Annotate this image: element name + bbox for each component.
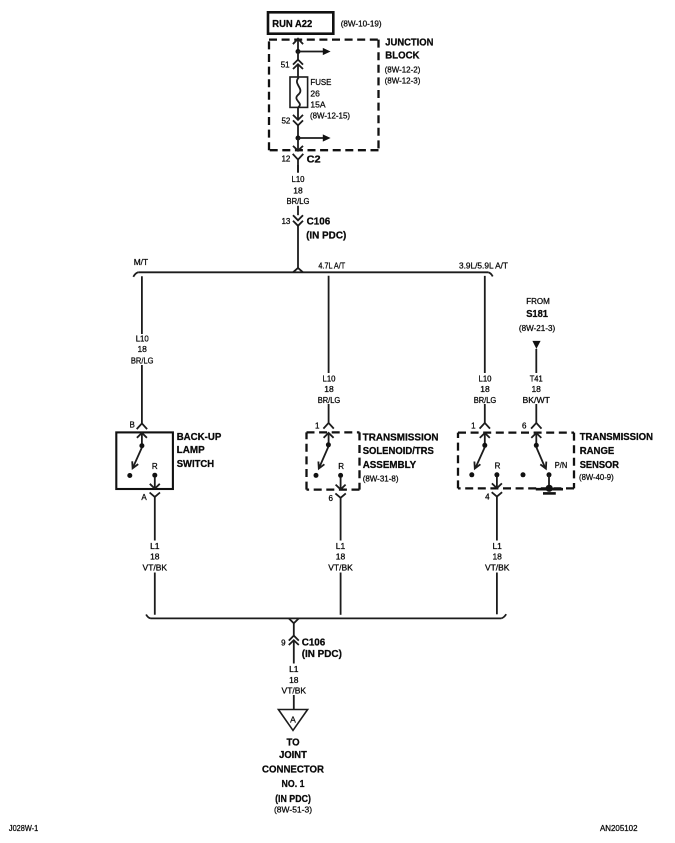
svg-text:S181: S181 [526,309,548,320]
svg-text:R: R [495,461,501,470]
svg-text:(8W-51-3): (8W-51-3) [274,804,312,814]
pin 6 male arrow inside middle [336,477,346,489]
wire T41 from S181 [535,349,537,423]
svg-text:(8W-21-3): (8W-21-3) [519,323,555,333]
svg-text:CONNECTOR: CONNECTOR [262,765,325,776]
svg-text:9: 9 [281,638,286,647]
svg-text:1: 1 [471,422,476,431]
svg-text:JUNCTION: JUNCTION [385,38,433,49]
junction block dashed border [269,40,379,151]
switch throw arrow middle [318,447,328,469]
svg-text:4: 4 [485,493,490,502]
pin 1 male arrow inside right [480,433,490,445]
svg-text:18: 18 [492,552,502,562]
switch common dot left [139,443,144,448]
svg-text:(8W-31-8): (8W-31-8) [363,473,399,483]
svg-text:L1: L1 [150,541,160,551]
block exit arrow down [293,138,303,151]
transmission range sensor label [579,432,653,482]
wire label middle L1 18 VT/BK [326,541,356,573]
junction block label [385,38,434,86]
svg-text:18: 18 [480,384,490,394]
transmission solenoid label [363,432,439,483]
wire label right L10 18 BR/LG [472,373,499,405]
svg-text:A: A [141,493,147,502]
pin 6 male arrow inside right [531,433,541,445]
svg-text:18: 18 [531,384,541,394]
connector pair 51 (double chevron up) [293,52,303,78]
connector pair 52 (double chevron down) [293,107,303,138]
svg-text:FROM: FROM [526,296,550,306]
svg-text:FUSE: FUSE [310,77,331,87]
top bus wire [138,271,488,273]
svg-text:18: 18 [336,552,346,562]
switch contact dot right1 [469,472,474,477]
svg-text:18: 18 [289,675,299,685]
svg-text:T41: T41 [530,373,543,383]
arrow up into RUN A22 [293,39,303,52]
splice dot upper [296,49,301,54]
label FROM S181 [519,296,555,333]
svg-text:18: 18 [324,384,334,394]
switch throw arrow left [132,448,142,469]
joint connector label [262,738,325,815]
svg-text:15A: 15A [310,99,325,109]
svg-text:VT/BK: VT/BK [328,563,353,573]
svg-text:BK/WT: BK/WT [523,395,550,405]
svg-text:L1: L1 [289,664,299,674]
svg-text:SENSOR: SENSOR [580,460,619,471]
connector C106 top name [306,216,346,242]
svg-text:TO: TO [286,738,299,749]
pin 4 male arrow inside right [492,477,502,489]
ground wire P/N [548,475,550,486]
switch common dot right1 [482,443,487,448]
svg-text:L10: L10 [323,373,336,383]
svg-text:R: R [152,462,158,471]
svg-text:VT/BK: VT/BK [282,685,307,695]
svg-text:BR/LG: BR/LG [287,196,310,206]
svg-text:VT/BK: VT/BK [143,563,168,573]
svg-text:3.9L/5.9L A/T: 3.9L/5.9L A/T [459,261,508,271]
back-up lamp switch label [177,432,222,470]
pin 6 female half right [531,423,541,429]
svg-text:L10: L10 [136,333,149,343]
pin 1 female half middle [323,423,333,429]
bottom bus right flick [501,614,506,618]
svg-text:18: 18 [150,552,160,562]
svg-text:RANGE: RANGE [580,446,615,457]
svg-text:SWITCH: SWITCH [177,459,214,470]
fuse 26 body [290,77,308,107]
svg-text:51: 51 [281,61,290,70]
svg-text:6: 6 [522,422,527,431]
wire label left L1 18 VT/BK [140,541,170,573]
fuse labels [310,77,350,121]
svg-text:6: 6 [329,494,334,503]
svg-text:BR/LG: BR/LG [474,395,497,405]
svg-text:LAMP: LAMP [177,445,205,456]
svg-text:(IN PDC): (IN PDC) [275,794,311,805]
wire L1 to joint connector [293,660,295,710]
transmission solenoid dashed box [307,432,360,489]
pin 1 male arrow inside middle [324,433,334,445]
pin 4 female half [492,492,502,614]
wire left branch L10 [141,276,143,423]
svg-text:C2: C2 [307,153,321,165]
pin B female half [137,423,147,429]
svg-text:NO. 1: NO. 1 [282,779,305,790]
connector C106 bottom name [302,636,342,659]
svg-text:(8W-12-3): (8W-12-3) [385,76,421,86]
bottom bus left flick [146,615,151,619]
ground symbol [536,485,563,494]
svg-text:12: 12 [281,154,290,163]
pin 6 female half middle [335,493,345,614]
wire label right L1 18 VT/BK [482,541,512,573]
svg-text:M/T: M/T [134,257,148,267]
svg-text:1: 1 [315,422,320,431]
svg-text:VT/BK: VT/BK [485,563,510,573]
wire label bottom L1 18 VT/BK [281,664,309,696]
connector pair 13 (double chevron down) [293,215,303,268]
svg-text:L10: L10 [292,174,305,184]
branch arrow right upper [298,48,331,55]
transmission range sensor dashed box [458,433,574,489]
connector pair 9 (double chevron up) [289,636,299,660]
switch throw arrow right1 [474,447,484,468]
svg-text:BLOCK: BLOCK [385,51,420,62]
svg-text:18: 18 [293,185,303,195]
svg-text:(8W-12-15): (8W-12-15) [310,111,350,121]
svg-text:(IN PDC): (IN PDC) [306,229,346,241]
terminal P/N dot [547,472,552,477]
svg-text:(8W-12-2): (8W-12-2) [385,64,421,74]
back-up lamp switch box [116,432,173,489]
svg-text:BR/LG: BR/LG [318,395,341,405]
wire label left L10 18 BR/LG [129,333,156,365]
top bus left flick [133,272,138,277]
switch contact dot left [127,473,132,478]
svg-text:4.7L A/T: 4.7L A/T [318,261,345,271]
svg-text:B: B [129,420,134,429]
svg-text:18: 18 [137,344,147,354]
switch common dot right2 [534,443,539,448]
svg-text:J028W-1: J028W-1 [9,824,39,833]
svg-text:52: 52 [281,116,290,125]
wire L10 from C2 to C106 [297,165,299,215]
svg-text:13: 13 [281,217,290,226]
splice dot lower [296,136,301,141]
svg-text:AN205102: AN205102 [600,824,638,833]
svg-text:P/N: P/N [555,461,568,470]
svg-text:(IN PDC): (IN PDC) [302,648,342,660]
wire label L10 18 BR/LG [284,173,312,206]
wire label T41 18 BK/WT [522,373,551,405]
svg-text:BR/LG: BR/LG [131,355,154,365]
svg-text:C106: C106 [307,216,331,228]
svg-text:SOLENOID/TRS: SOLENOID/TRS [363,446,435,457]
svg-text:L10: L10 [479,373,492,383]
svg-text:(8W-40-9): (8W-40-9) [579,472,614,482]
svg-text:A: A [290,715,296,725]
connector RUN A22 box [268,12,333,33]
pin A female half [150,493,160,615]
pin 1 female half right [480,423,490,429]
svg-text:26: 26 [310,89,320,99]
S181 feed triangle [532,341,540,349]
wire right branch L10 [484,276,486,423]
top bus merge tent [293,268,303,272]
svg-text:JOINT: JOINT [279,750,307,761]
bottom bus merge tent [289,618,299,635]
svg-text:L1: L1 [336,541,346,551]
switch throw arrow right2 [536,447,546,469]
connector C2 female half [293,154,304,172]
joint connector triangle A [278,710,307,731]
wire label middle L10 18 BR/LG [316,373,343,405]
svg-text:BACK-UP: BACK-UP [177,432,222,443]
terminal R dot left [152,473,157,478]
svg-text:ASSEMBLY: ASSEMBLY [363,460,417,471]
pin B male arrow inside [137,433,147,446]
svg-text:RUN A22: RUN A22 [272,18,312,30]
bottom bus wire [151,617,502,619]
svg-text:L1: L1 [492,541,502,551]
switch common dot middle [326,442,331,447]
pin A male arrow inside [150,477,160,489]
wire middle branch L10 [328,276,330,423]
svg-text:TRANSMISSION: TRANSMISSION [580,432,653,443]
svg-text:R: R [338,462,344,471]
top bus right flick [488,272,493,276]
terminal R dot right [494,472,499,477]
unused contact dot right [521,472,526,477]
svg-text:C106: C106 [302,636,326,648]
svg-text:(8W-10-19): (8W-10-19) [341,19,382,29]
switch contact dot middle [314,473,319,478]
svg-text:TRANSMISSION: TRANSMISSION [363,432,439,443]
terminal R dot middle [338,473,343,478]
branch arrow right lower [298,134,331,141]
